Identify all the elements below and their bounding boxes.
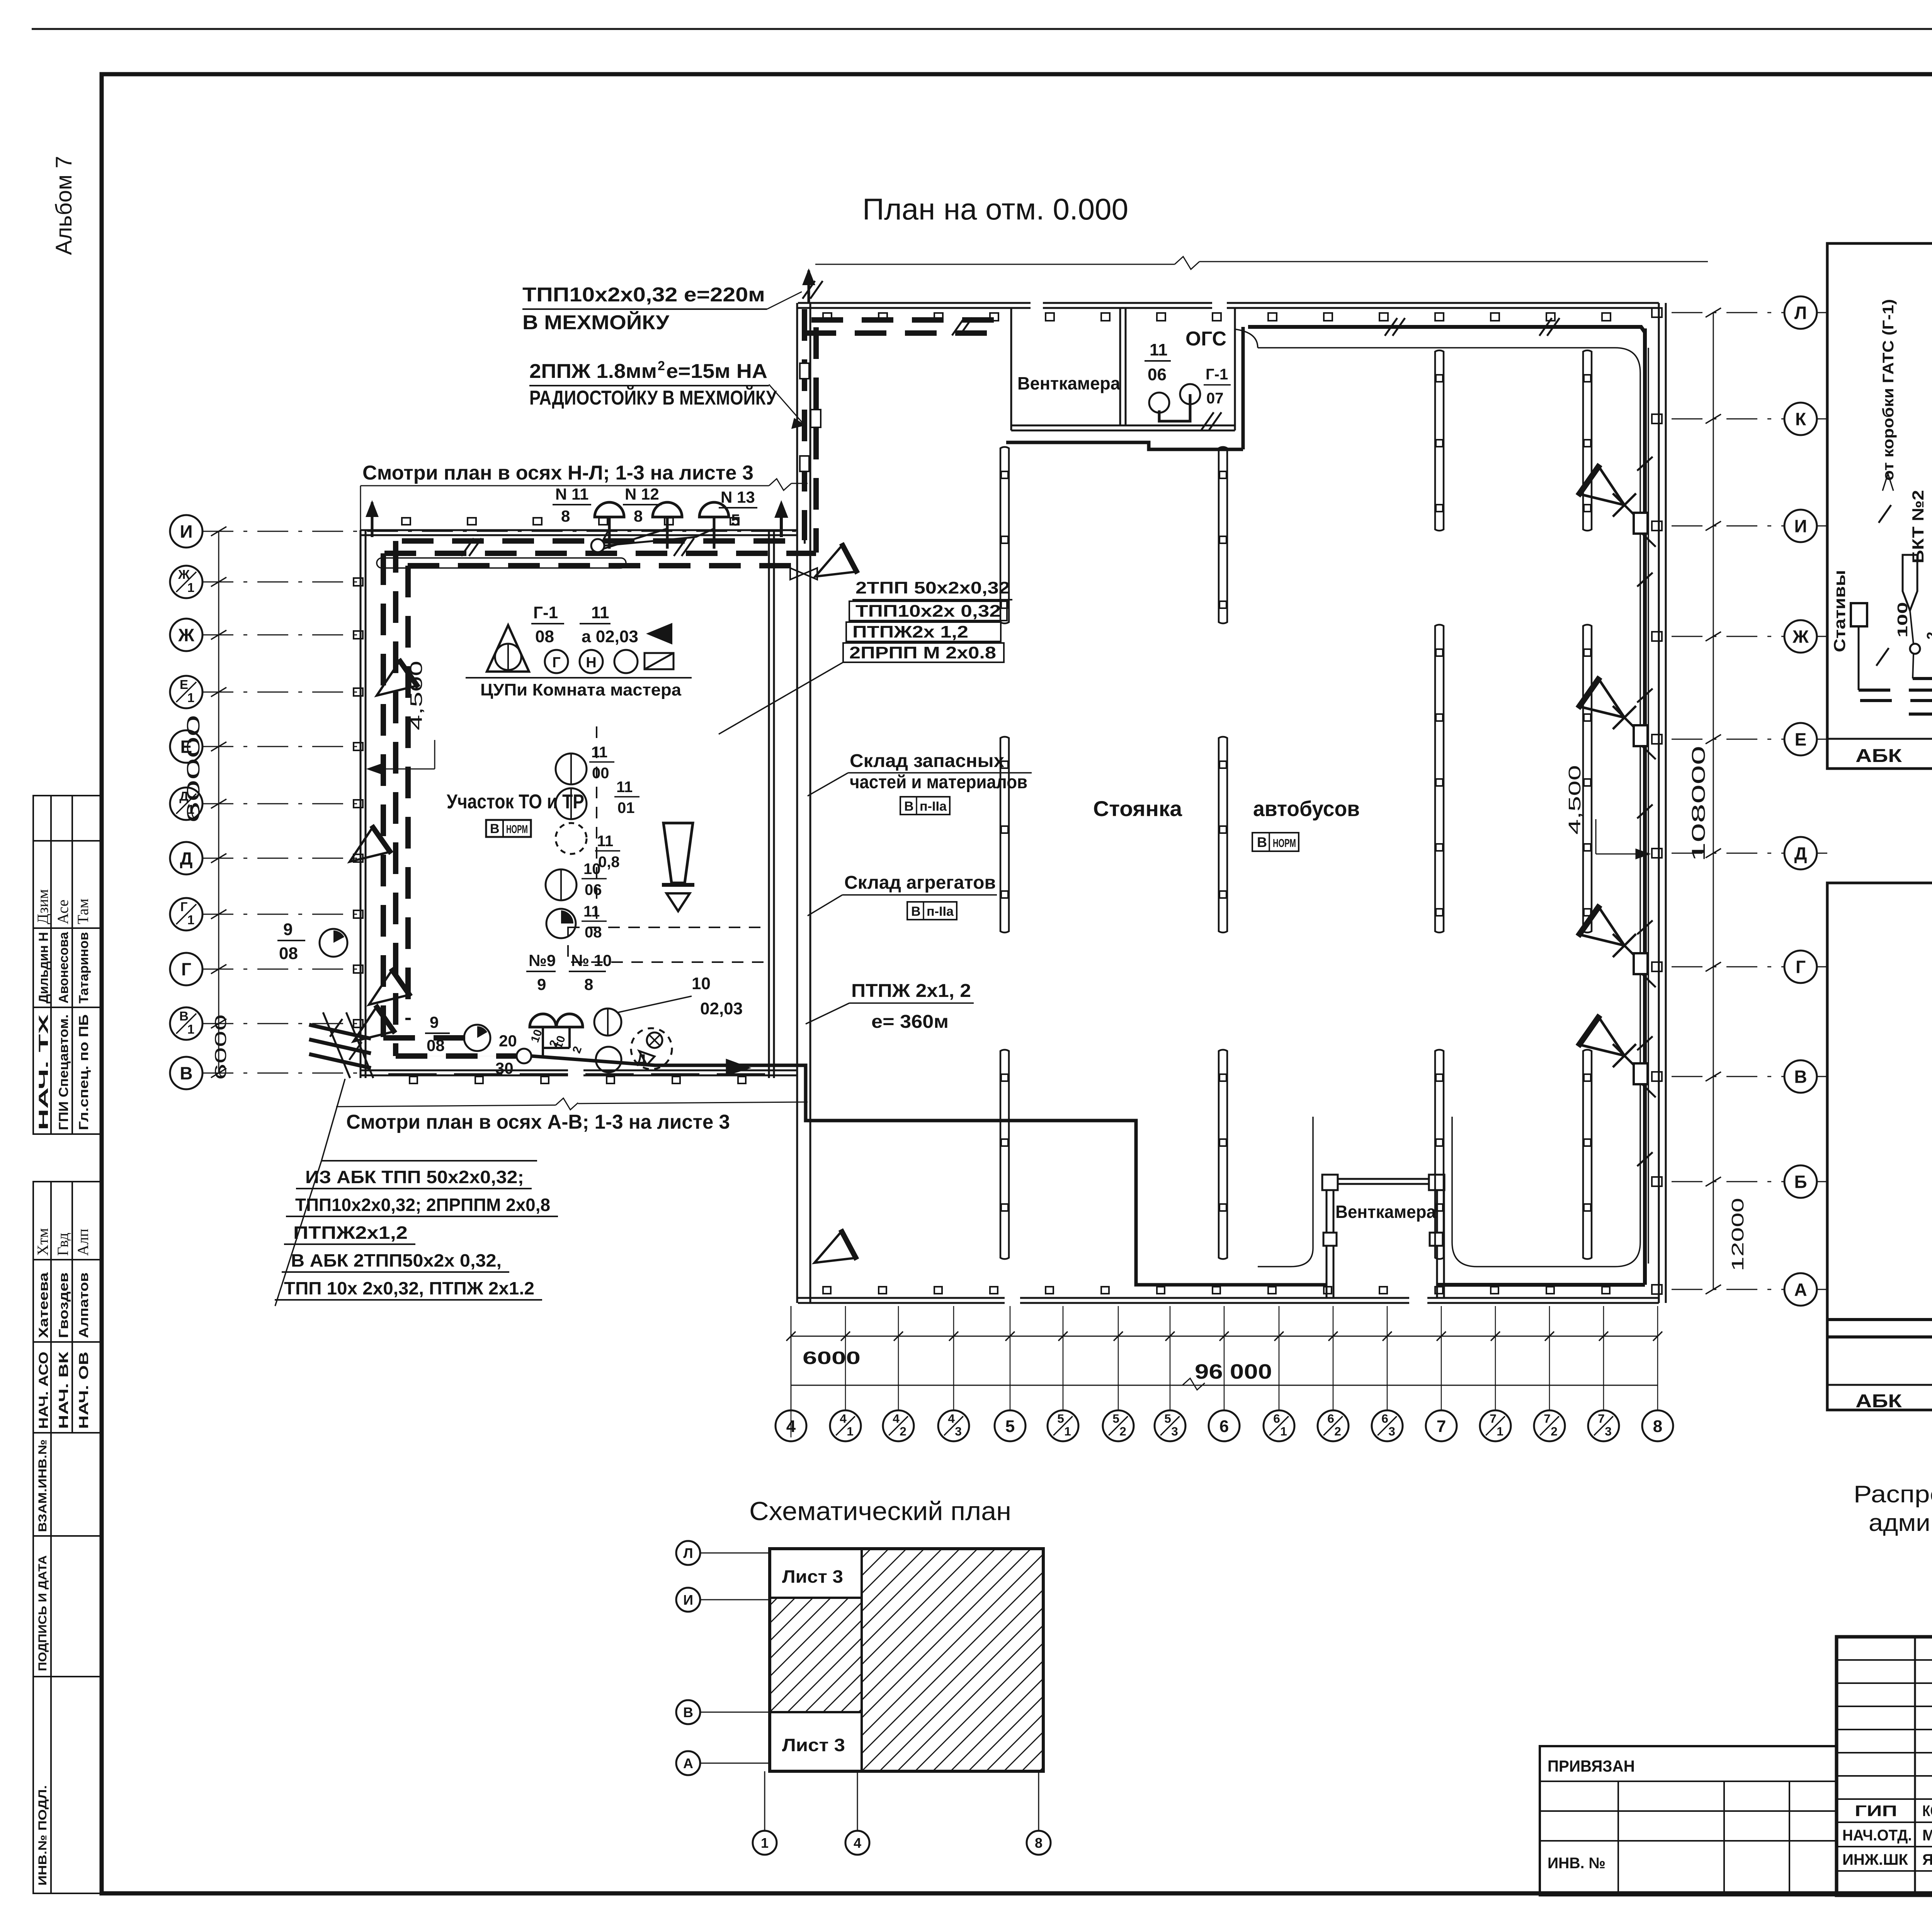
svg-text:01: 01 [617,799,635,816]
bottom axis 4/2 circle [883,1410,914,1441]
right wall cable [1643,328,1647,1285]
title block left columns [1914,1637,1916,1895]
sidebar lower cells [33,1433,102,1893]
svg-text:Стативы: Стативы [1830,570,1849,652]
bottom axis 7/2 circle [1534,1410,1565,1441]
svg-text:60000: 60000 [183,715,203,823]
thick cable: ventkamera bottom run [1006,442,1243,449]
svg-text:И: И [180,522,192,542]
svg-text:Лист 3: Лист 3 [782,1735,845,1755]
svg-text:1: 1 [761,1835,769,1851]
svg-text:4: 4 [893,1412,900,1425]
svg-text:06: 06 [1148,365,1167,384]
svg-text:11: 11 [616,779,633,796]
bottom axis 4 circle [776,1410,806,1441]
svg-text:7: 7 [1490,1412,1497,1425]
svg-text:ПРИВЯЗАН: ПРИВЯЗАН [1548,1757,1635,1775]
svg-text:Л: Л [683,1545,693,1561]
schematic axis Л [676,1541,700,1565]
svg-text:11: 11 [591,744,607,761]
svg-text:Гл.спец. по ПБ: Гл.спец. по ПБ [77,1014,91,1130]
axis Г circle [170,953,202,985]
svg-text:частей и материалов: частей и материалов [850,772,1027,793]
sidebar table B frame [33,1182,102,1433]
bottom axis 7/1 circle [1480,1410,1511,1441]
big horn in left section [662,823,694,911]
sidebar table A frame [33,796,102,1134]
bottom axis 5/3 extension [1170,1306,1171,1410]
svg-text:5: 5 [731,511,740,529]
cable bundle: vertical risers in corridor [802,309,807,540]
svg-text:Асе: Асе [54,900,71,924]
symbol group Г-1/08 [487,625,529,672]
svg-text:Г: Г [180,900,188,914]
cable bundle: left section bottom horizontals [383,1035,466,1041]
schematic plan outline [770,1549,1043,1771]
svg-text:5: 5 [1112,1412,1119,1425]
axis В circle [170,1057,202,1089]
svg-text:2: 2 [900,1424,906,1438]
axis Г/1 line [202,914,363,915]
speakers right wall [1578,464,1635,520]
hall inner dashed riser markers [800,363,809,379]
bottom axis 4/1 circle [830,1410,861,1441]
bottom axis 4 extension [791,1306,792,1410]
svg-text:Венткамера: Венткамера [1335,1202,1436,1222]
bell N12 [653,502,682,517]
svg-text:БКТ №2: БКТ №2 [1909,490,1927,563]
svg-text:ИНВ. №: ИНВ. № [1548,1855,1605,1872]
bottom axis 8 extension [1657,1306,1658,1410]
right axis Л line [1672,312,1784,313]
right axis Б circle [1784,1165,1817,1198]
column markers left section top [402,518,410,525]
right aisle line [1648,348,1649,1264]
column markers left section bottom [410,1077,417,1083]
thick cable: ОГС riser [1242,327,1245,449]
speaker at hall left top [807,543,857,592]
svg-text:Г: Г [181,959,191,980]
svg-text:1: 1 [187,1022,194,1037]
column markers right wall [1652,308,1662,317]
svg-text:НАЧ. АСО: НАЧ. АСО [36,1352,51,1429]
svg-text:5: 5 [1164,1412,1171,1425]
left section bottom wall [361,1070,568,1071]
svg-text:АБК: АБК [1855,1391,1902,1412]
bottom axis 6/3 extension [1387,1306,1388,1410]
bottom axis 7/3 circle [1588,1410,1619,1441]
svg-text:08: 08 [427,1036,445,1054]
svg-text:Алп: Алп [74,1229,92,1256]
right axis К line [1672,418,1784,420]
svg-text:6: 6 [1273,1412,1280,1425]
left dimension line 60000 [218,531,219,1073]
svg-text:08: 08 [279,944,298,963]
svg-text:Г: Г [1796,957,1806,977]
svg-text:06: 06 [585,881,602,898]
bottom axis 5 circle [995,1410,1026,1441]
svg-text:11: 11 [591,603,609,622]
circles 11/00 11/01 [556,753,587,784]
svg-text:Смотри план в осях А-В; 1-3 н: Смотри план в осях А-В; 1-3 на листе 3 [346,1111,730,1133]
svg-text:2ТПП 50х2х0,32: 2ТПП 50х2х0,32 [855,578,1010,597]
svg-text:автобусов: автобусов [1253,796,1360,821]
right axis А line [1672,1289,1784,1290]
svg-text:7: 7 [1437,1417,1446,1436]
svg-text:4: 4 [840,1412,847,1425]
svg-text:0,8: 0,8 [598,854,620,871]
bottom axis 5/1 extension [1063,1306,1064,1410]
svg-text:В: В [179,1009,189,1024]
bottom axis 7/1 extension [1495,1306,1496,1410]
schematic axis 4 [845,1831,869,1855]
svg-text:В: В [904,799,914,814]
left section left wall [360,530,362,1078]
circle pair bottom [594,1009,621,1036]
svg-text:9: 9 [283,920,293,939]
svg-text:Авонесова: Авонесова [56,932,71,1003]
привязан block [1540,1746,1837,1895]
svg-text:ИНВ.№ ПОДЛ.: ИНВ.№ ПОДЛ. [36,1785,49,1886]
bottom axis 6/2 circle [1318,1410,1349,1441]
svg-text:Лист 3: Лист 3 [782,1566,843,1587]
svg-text:1: 1 [187,581,194,595]
schematic axis 1 [753,1831,777,1855]
cable list из АБК [321,1160,537,1162]
schema1 box [1827,243,1932,769]
svg-text:Г: Г [552,655,561,671]
svg-text:3: 3 [1605,1424,1612,1438]
svg-text:3: 3 [955,1424,962,1438]
svg-text:ИНЖ.ШК: ИНЖ.ШК [1842,1851,1908,1868]
svg-text:ОГС: ОГС [1185,328,1226,350]
thick cable: hall bottom run [531,1056,1327,1285]
ОГС right wall [1234,308,1236,430]
bottom axis 5/3 circle [1155,1410,1185,1441]
thick cable: hall top run to right wall [1248,327,1645,348]
schematic axis В [676,1700,700,1724]
svg-text:1: 1 [187,691,194,705]
svg-text:6: 6 [1327,1412,1334,1425]
svg-text:1: 1 [1280,1424,1287,1438]
svg-text:Склад агрегатов: Склад агрегатов [844,872,996,893]
svg-text:Хатеева: Хатеева [36,1272,51,1338]
svg-text:от коробки ГАТС (Г-1): от коробки ГАТС (Г-1) [1880,299,1897,481]
thick cable: bottom right segment [1437,1283,1645,1287]
svg-text:ПОДПИСЬ И ДАТА: ПОДПИСЬ И ДАТА [36,1555,49,1671]
right axis Е circle [1784,723,1817,755]
svg-text:Участок ТО и ТР: Участок ТО и ТР [447,791,584,813]
right axis Ж line [1672,636,1784,637]
axis Д/1 circle [170,787,202,820]
bottom axis 7 circle [1426,1410,1457,1441]
cable list slant edge [275,1161,321,1306]
svg-text:Д: Д [1794,844,1807,864]
circles 10/06 11/08 [546,869,577,900]
svg-text:Г-1: Г-1 [1206,366,1228,383]
bottom axis 5/1 circle [1048,1410,1078,1441]
svg-text:Л: Л [1794,303,1807,323]
ventkamera 1 partition left [1010,308,1012,430]
hall bottom wall (axis А) [798,1297,1005,1299]
sheet top border line [32,28,1932,30]
svg-text:НАЧ. ВК: НАЧ. ВК [56,1352,71,1429]
svg-text:В: В [683,1704,693,1720]
right axis И circle [1784,510,1817,542]
svg-text:Распределительные коробки №1: Распределительные коробки №1 - №8 запрое… [1854,1481,1932,1508]
svg-text:ЯКУШЕВА: ЯКУШЕВА [1922,1851,1932,1868]
svg-text:е=15м НА: е=15м НА [666,360,767,383]
svg-text:И: И [683,1592,693,1608]
svg-text:6000: 6000 [803,1348,861,1368]
svg-text:В: В [1257,834,1267,850]
bottom dimension line 1 [791,1336,1658,1337]
svg-text:1: 1 [1497,1424,1503,1438]
schema2 box [1827,883,1932,1410]
svg-text:9: 9 [430,1013,439,1031]
bottom axis 7/2 extension [1549,1306,1550,1410]
svg-text:2: 2 [1334,1424,1341,1438]
bottom axis 7/3 extension [1603,1306,1604,1410]
bottom axis 4/2 extension [898,1306,899,1410]
svg-text:К: К [1795,409,1806,429]
svg-text:11: 11 [1150,340,1168,359]
svg-text:№ 10: № 10 [571,951,612,969]
axis Ж circle [170,619,202,651]
axis Ж/1 line [202,582,363,583]
mechmoyka cable arrow at ventkamera [808,270,810,303]
bottom axis 6/2 extension [1333,1306,1334,1410]
В АБК line [1828,1318,1932,1321]
svg-text:Татаринов: Татаринов [77,932,91,1003]
svg-text:20: 20 [499,1032,517,1050]
bottom axis 4/1 extension [845,1306,846,1410]
axis Е circle [170,730,202,763]
svg-text:ТПП 10х 2х0,32, ПТПЖ 2х1.2: ТПП 10х 2х0,32, ПТПЖ 2х1.2 [284,1278,534,1298]
axis Г line [202,969,363,970]
column markers left wall [354,578,363,586]
svg-text:В: В [1794,1067,1807,1087]
svg-text:РАДИОСТОЙКУ В МЕХМОЙКУ: РАДИОСТОЙКУ В МЕХМОЙКУ [529,386,777,409]
статив symbol [1851,603,1867,626]
svg-text:МАЛАХОВ: МАЛАХОВ [1922,1827,1932,1844]
column markers along top wall [823,313,832,321]
svg-text:В МЕХМОЙКУ: В МЕХМОЙКУ [522,311,670,334]
svg-text:Склад запасных: Склад запасных [850,751,1004,771]
svg-text:ГИП: ГИП [1855,1803,1897,1820]
axis Ж line [202,634,363,636]
schema2 strip line [1827,1384,1932,1386]
svg-text:ВЗАМ.ИНВ.№: ВЗАМ.ИНВ.№ [36,1439,49,1532]
bottom axis 6 circle [1209,1410,1240,1441]
svg-text:ПТПЖ2х1,2: ПТПЖ2х1,2 [293,1223,408,1243]
svg-text:Н: Н [586,655,596,671]
inner roadway loop right [1258,348,1640,1267]
svg-text:4,500: 4,500 [1565,765,1584,835]
title block thin rows [1837,1659,1932,1661]
svg-text:НАЧ. ТХ: НАЧ. ТХ [36,1014,51,1130]
svg-text:НАЧ. ОВ: НАЧ. ОВ [77,1352,91,1429]
svg-text:административно- бытовом корп: административно- бытовом корпусе [1869,1510,1932,1536]
ventkamera 1 partition middle [1119,308,1121,425]
corridor up arrow [780,506,783,537]
svg-text:96 000: 96 000 [1195,1360,1272,1383]
schema1 bus solid [1913,677,1932,680]
right dimension line 108000 [1713,313,1714,1289]
svg-text:Смотри план в осях Н-Л; 1-3 на: Смотри план в осях Н-Л; 1-3 на листе 3 [362,462,753,484]
svg-text:Д: Д [637,1052,646,1066]
schematic axis 8 [1027,1831,1051,1855]
axis И line [202,531,798,532]
svg-text:9: 9 [537,975,546,993]
svg-text:ТПП10х2х0,32 е=220м: ТПП10х2х0,32 е=220м [522,284,765,306]
svg-text:Е: Е [180,678,188,692]
axis И circle [170,515,202,548]
svg-text:2ППЖ 1.8мм: 2ППЖ 1.8мм [529,360,657,383]
label ЦУПи Комната мастера [466,677,692,679]
svg-text:Венткамера: Венткамера [1017,373,1120,393]
svg-text:07: 07 [1206,390,1224,407]
svg-text:ИЗ АБК ТПП 50х2х0,32;: ИЗ АБК ТПП 50х2х0,32; [305,1167,524,1187]
svg-text:6: 6 [1381,1412,1388,1425]
svg-text:5: 5 [1005,1417,1015,1436]
schematic axis И [676,1588,700,1612]
svg-text:2: 2 [1119,1424,1126,1438]
svg-text:КОРОСТЕЛЕВ: КОРОСТЕЛЕВ [1922,1803,1932,1820]
title block outer [1837,1637,1932,1895]
svg-text:Хтм: Хтм [34,1228,51,1256]
axis Д circle [170,842,202,874]
svg-text:Стоянка: Стоянка [1093,796,1182,821]
cable bundle: left section verticals [381,553,386,1038]
svg-text:В: В [911,904,921,919]
left section top wall (axis И) [361,529,798,531]
axis Ж/1 circle [170,566,202,598]
svg-text:Ж: Ж [178,568,190,582]
svg-text:10: 10 [692,974,711,993]
svg-text:ТПП10х2х0,32; 2ПРППМ 2х0,8: ТПП10х2х0,32; 2ПРППМ 2х0,8 [295,1195,550,1215]
axis Д line [202,858,363,859]
bottom axis 6/1 circle [1264,1410,1294,1441]
axis В line [202,1073,363,1074]
svg-text:11: 11 [597,833,613,850]
svg-text:8: 8 [634,507,643,525]
right axis Е line [1672,739,1784,740]
svg-text:N 11: N 11 [555,485,588,503]
left section up arrow [371,502,374,537]
right axis Л circle [1784,296,1817,329]
svg-text:Ж: Ж [1792,627,1809,647]
svg-text:ГПИ Спецавтом.: ГПИ Спецавтом. [56,1014,71,1130]
svg-text:4: 4 [948,1412,955,1425]
bell N11 [595,502,624,517]
hall right wall [1658,303,1660,1303]
svg-text:а 02,03: а 02,03 [582,627,638,646]
column markers bottom wall [823,1287,831,1294]
cable bundle: hall top horizontals [811,317,1005,323]
svg-text:7: 7 [1544,1412,1551,1425]
bottom axis 5/2 circle [1103,1410,1134,1441]
right axis Г line [1672,966,1784,968]
bottom axis 4/3 circle [938,1410,969,1441]
schema1 strip line [1827,738,1932,740]
svg-text:Там: Там [74,898,92,924]
svg-text:108000: 108000 [1689,746,1709,862]
svg-text:ТПП10х2х 0,32: ТПП10х2х 0,32 [855,602,1001,621]
speakers left section wall [367,659,418,709]
right axis В circle [1784,1060,1817,1093]
bottom axis 6 extension [1224,1306,1225,1410]
svg-text:00: 00 [592,765,609,782]
ventkamera 2 room [1327,1178,1444,1180]
axis Е/1 circle [170,676,202,708]
svg-text:8: 8 [584,975,593,993]
axis Г/1 circle [170,898,202,930]
bell N13 [699,502,729,517]
right axis Б line [1672,1181,1784,1182]
cable bundle: left section top horizontals [402,538,806,544]
svg-text:5: 5 [1057,1412,1064,1425]
svg-text:ПТПЖ2х 1,2: ПТПЖ2х 1,2 [852,622,968,641]
bottom axis 7 extension [1441,1306,1442,1410]
svg-text:В: В [490,821,500,836]
svg-text:План на отм. 0.000: План на отм. 0.000 [862,192,1128,226]
svg-text:8: 8 [561,507,570,525]
svg-text:2: 2 [658,359,665,373]
cable entry from АБК (diagonals) [309,1025,371,1039]
svg-text:4: 4 [854,1835,861,1851]
svg-text:6: 6 [1219,1417,1229,1436]
svg-text:Дильдин Н: Дильдин Н [36,932,51,1003]
svg-text:ПТПЖ 2х1, 2: ПТПЖ 2х1, 2 [851,981,971,1001]
axis Е/1 line [202,692,363,693]
left section right wall [768,530,770,1078]
hash marks on right cable [1637,457,1653,471]
svg-text:02,03: 02,03 [700,999,743,1018]
svg-text:НАЧ.ОТД.: НАЧ.ОТД. [1842,1827,1912,1844]
right axis К circle [1784,403,1817,435]
svg-text:3: 3 [1388,1424,1395,1438]
svg-text:НОРМ: НОРМ [1273,837,1296,850]
dashed storage platform [568,927,769,962]
right axis И line [1672,526,1784,527]
bottom axis 5 extension [1010,1306,1011,1410]
svg-text:А: А [1794,1280,1807,1300]
svg-text:А: А [683,1755,693,1771]
svg-text:12000: 12000 [1728,1198,1747,1271]
inner roadway loop left of ventkamera2 [1258,1117,1313,1267]
svg-text:Г-1: Г-1 [533,603,558,622]
axis Д/1 line [202,803,363,804]
fuse symbol [1903,555,1917,611]
axis Е line [202,746,363,747]
svg-text:100: 100 [1895,602,1910,638]
right axis Д circle [1784,837,1817,869]
svg-text:10: 10 [583,861,601,878]
schema1 bus dashed lines [1859,689,1932,692]
bottom axis 5/2 extension [1118,1306,1119,1410]
ИЗ АБК line [1828,1335,1932,1338]
plan: break line to sheet 3 (top-left) [360,486,361,530]
svg-text:п-IIа: п-IIа [927,904,954,919]
svg-text:Альбом 7: Альбом 7 [51,156,77,255]
svg-text:8: 8 [1653,1417,1662,1436]
svg-text:1: 1 [847,1424,854,1438]
svg-text:08: 08 [535,627,554,646]
svg-text:В АБК 2ТПП50х2х 0,32,: В АБК 2ТПП50х2х 0,32, [291,1250,502,1270]
axis В/1 circle [170,1007,202,1040]
svg-text:2: 2 [1924,632,1932,639]
